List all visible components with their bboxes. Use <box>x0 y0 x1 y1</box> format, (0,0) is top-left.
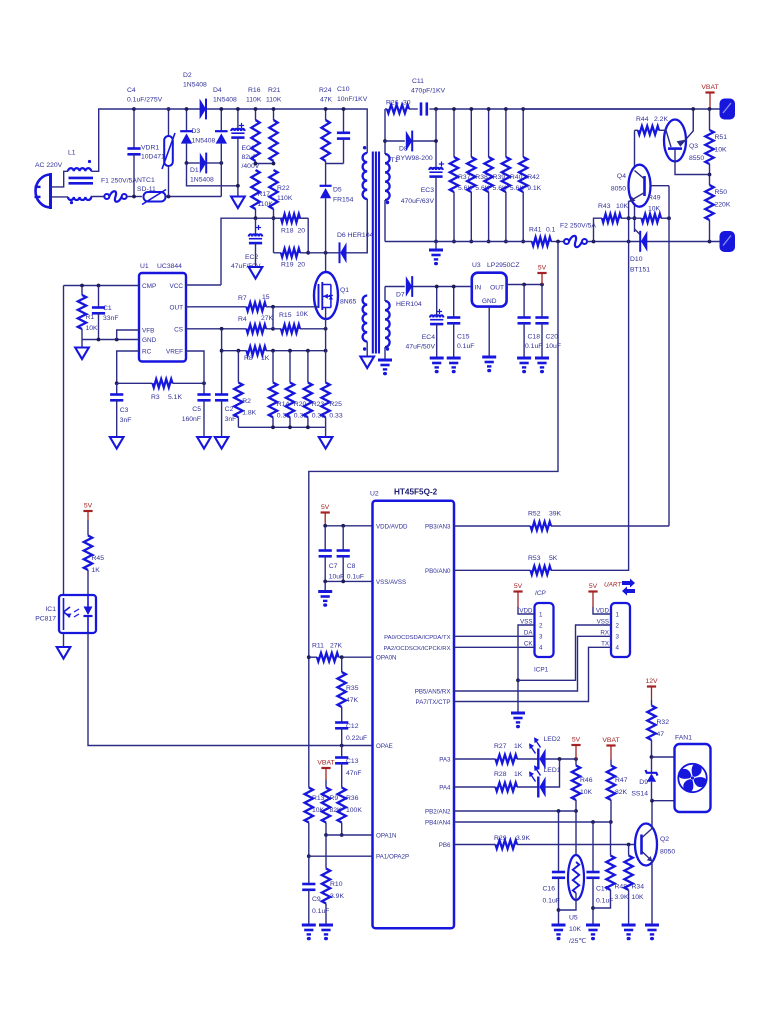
ground EC4 <box>430 357 444 360</box>
svg-text:110K: 110K <box>266 97 282 104</box>
svg-text:VDD: VDD <box>519 607 533 614</box>
wire EC3 node <box>435 109 437 170</box>
svg-text:0.1: 0.1 <box>546 227 556 234</box>
svg-text:47: 47 <box>657 731 665 738</box>
wire VCC rail <box>221 218 308 285</box>
svg-text:1N5408: 1N5408 <box>213 97 237 104</box>
svg-text:5.1K: 5.1K <box>168 394 182 401</box>
svg-text:VSS/AVSS: VSS/AVSS <box>376 579 406 586</box>
wire RC pin <box>117 351 139 383</box>
svg-text:39K: 39K <box>549 511 562 518</box>
svg-text:1K: 1K <box>514 771 523 778</box>
svg-text:3nF: 3nF <box>225 416 237 423</box>
svg-text:D3: D3 <box>192 128 201 135</box>
connector AC plug <box>36 175 51 208</box>
wire UART VSS <box>518 625 611 680</box>
wire Q2 emitter to ground <box>651 861 653 924</box>
svg-text:R44: R44 <box>636 116 649 123</box>
svg-text:R28: R28 <box>494 771 507 778</box>
svg-text:2: 2 <box>539 622 543 629</box>
resistor R25 <box>325 351 327 383</box>
wire clamp to D6 <box>308 252 339 254</box>
svg-text:470uF/63V: 470uF/63V <box>401 198 435 205</box>
svg-text:160nF: 160nF <box>182 416 201 423</box>
svg-text:VDD: VDD <box>596 607 610 614</box>
wire VCC pin <box>186 284 221 286</box>
wire D5 anode to drain node <box>325 198 327 284</box>
svg-text:VCC: VCC <box>170 283 184 290</box>
svg-text:TX: TX <box>601 641 609 648</box>
svg-text:R7: R7 <box>238 295 247 302</box>
svg-text:3: 3 <box>539 634 543 641</box>
wire L1 bottom to fuse <box>91 196 104 198</box>
svg-text:R24: R24 <box>319 87 332 94</box>
svg-text:C18: C18 <box>528 334 541 341</box>
wire Q1 source <box>325 308 327 329</box>
resistor R40 <box>505 109 507 157</box>
ground EC2 <box>249 267 263 279</box>
wire fuse to NTC <box>127 196 142 198</box>
svg-text:0.1uF: 0.1uF <box>525 343 542 350</box>
wire Q1 drain internal <box>325 283 327 286</box>
svg-text:8050: 8050 <box>660 849 675 856</box>
svg-text:R18: R18 <box>281 228 294 235</box>
svg-text:VDD/AVDD: VDD/AVDD <box>376 523 408 530</box>
svg-text:10K: 10K <box>580 789 593 796</box>
svg-text:OUT: OUT <box>170 305 184 312</box>
wire VDD line <box>325 525 372 527</box>
svg-text:0.1uF: 0.1uF <box>543 898 560 905</box>
wire ICP VSS to ground <box>518 625 535 712</box>
wire VREF pin <box>186 351 204 395</box>
svg-text:1N5408: 1N5408 <box>192 138 216 145</box>
wire opto output to OPAE <box>88 633 373 746</box>
svg-text:R22: R22 <box>277 185 290 192</box>
wire VFB to ground line <box>117 330 139 340</box>
capacitor EC1 <box>239 125 244 127</box>
svg-text:GND: GND <box>142 337 157 344</box>
wire VSS line <box>325 580 372 582</box>
svg-text:FAN1: FAN1 <box>675 735 692 742</box>
resistor R23 <box>307 351 309 383</box>
svg-text:C2: C2 <box>225 406 234 413</box>
svg-text:PA2/OCDSCK/ICPCK/RX: PA2/OCDSCK/ICPCK/RX <box>384 646 451 652</box>
svg-text:RX: RX <box>600 630 609 637</box>
ground Q2 <box>645 924 659 927</box>
svg-text:3.9K: 3.9K <box>615 894 629 901</box>
svg-text:C11: C11 <box>412 78 424 85</box>
svg-text:R51: R51 <box>715 134 728 141</box>
svg-text:EC3: EC3 <box>421 187 434 194</box>
svg-text:F2 250V/5A: F2 250V/5A <box>560 223 596 230</box>
svg-text:220K: 220K <box>715 202 731 209</box>
ground IC1 <box>63 633 65 647</box>
svg-text:VBAT: VBAT <box>701 84 718 91</box>
ground C9 <box>302 924 316 927</box>
svg-text:D4: D4 <box>213 87 222 94</box>
svg-text:5K: 5K <box>549 555 558 562</box>
svg-text:47nF: 47nF <box>346 770 362 777</box>
wire PA7 to UART TX <box>454 647 611 701</box>
svg-text:C15: C15 <box>457 334 470 341</box>
wire CS pin <box>186 328 247 330</box>
svg-text:10K: 10K <box>569 926 582 933</box>
transformer T1 primary winding <box>366 109 368 153</box>
wire ICP VDD <box>518 607 535 614</box>
wire plug to L1 bottom <box>51 196 69 198</box>
svg-text:20: 20 <box>298 262 306 269</box>
svg-text:U2: U2 <box>370 491 379 498</box>
wire D6 to primary bottom <box>347 199 368 253</box>
svg-text:110K: 110K <box>277 195 293 202</box>
svg-text:R4: R4 <box>238 316 247 323</box>
svg-text:AC 220V: AC 220V <box>35 162 63 169</box>
svg-text:PA4: PA4 <box>439 785 451 792</box>
svg-text:1.8K: 1.8K <box>242 410 256 417</box>
svg-text:CMP: CMP <box>142 283 156 290</box>
svg-text:CS: CS <box>174 326 183 333</box>
svg-text:R35: R35 <box>346 685 359 692</box>
wire PB4 line <box>454 821 611 823</box>
svg-text:R3: R3 <box>151 394 160 401</box>
svg-text:15: 15 <box>262 294 270 301</box>
terminal output negative <box>721 232 735 251</box>
svg-text:ICP: ICP <box>535 590 546 597</box>
svg-text:1: 1 <box>539 611 543 618</box>
svg-text:PB6: PB6 <box>439 842 451 849</box>
svg-text:EC2: EC2 <box>245 254 258 261</box>
svg-text:NTC1: NTC1 <box>137 177 155 184</box>
svg-text:OUT: OUT <box>490 285 504 292</box>
svg-text:PA7/TX/CTP: PA7/TX/CTP <box>416 699 451 706</box>
svg-text:5V: 5V <box>514 583 523 590</box>
ground ICP <box>511 712 525 715</box>
svg-text:PB2/AN2: PB2/AN2 <box>425 809 451 816</box>
svg-text:PA0/OCDSDA/ICPDA/TX: PA0/OCDSDA/ICPDA/TX <box>384 635 450 641</box>
ground C3 <box>110 437 124 449</box>
svg-text:UC3844: UC3844 <box>157 263 182 270</box>
wire Q2 collector <box>652 801 675 829</box>
svg-text:U5: U5 <box>569 915 578 922</box>
svg-text:SS14: SS14 <box>631 791 648 798</box>
ground C18 <box>517 357 531 360</box>
svg-text:27K: 27K <box>261 315 274 322</box>
ground C17 <box>586 924 600 927</box>
wire sense resistor bottoms <box>238 426 325 428</box>
svg-text:IN: IN <box>475 285 482 292</box>
wire R43 R49 line <box>594 218 603 241</box>
wire PB2 line <box>454 810 576 812</box>
wire current sense feedback <box>309 242 558 788</box>
wire bridge negative to EC1 ground <box>187 163 238 186</box>
resistor R14 <box>272 351 274 383</box>
svg-text:LED2: LED2 <box>544 736 561 743</box>
svg-text:Q2: Q2 <box>660 836 669 843</box>
svg-text:4: 4 <box>539 645 543 652</box>
svg-text:D2: D2 <box>183 72 192 79</box>
svg-text:VSS: VSS <box>597 618 609 625</box>
svg-text:470pF/1KV: 470pF/1KV <box>411 88 445 95</box>
transformer T1 secondary winding bottom <box>385 301 390 347</box>
svg-text:C20: C20 <box>546 334 559 341</box>
ground sense resistors <box>325 427 327 436</box>
svg-text:5V: 5V <box>589 583 598 590</box>
capacitor EC3 <box>439 163 444 165</box>
ground U3 <box>482 356 496 359</box>
svg-text:R53: R53 <box>528 555 541 562</box>
wire AC rail top <box>134 108 367 110</box>
resistor R20 <box>289 351 291 383</box>
svg-text:R25: R25 <box>329 401 342 408</box>
resistor R42 <box>522 109 524 157</box>
svg-text:9.1K: 9.1K <box>527 185 541 192</box>
wire R18 R19 right junction <box>307 218 309 253</box>
svg-text:R16: R16 <box>248 87 261 94</box>
svg-text:HT45F5Q-2: HT45F5Q-2 <box>394 488 438 497</box>
svg-text:0.1uF: 0.1uF <box>457 343 474 350</box>
capacitor EC2 <box>256 227 261 229</box>
svg-text:L1: L1 <box>68 150 76 157</box>
svg-text:C3: C3 <box>120 407 129 414</box>
svg-text:4: 4 <box>616 645 620 652</box>
svg-text:R27: R27 <box>494 743 507 750</box>
wire PA2 to ICP CK <box>454 646 535 648</box>
svg-text:OPA0N: OPA0N <box>376 655 397 662</box>
svg-text:C7: C7 <box>329 563 338 570</box>
svg-text:U1: U1 <box>140 263 149 270</box>
svg-text:10K: 10K <box>715 147 728 154</box>
wire U3 ground pin <box>488 307 490 356</box>
svg-text:3.9K: 3.9K <box>516 835 530 842</box>
wire plug to L1 top <box>51 171 69 187</box>
svg-text:R52: R52 <box>528 511 541 518</box>
svg-text:2: 2 <box>616 622 620 629</box>
svg-text:IC1: IC1 <box>45 606 56 613</box>
svg-text:R49: R49 <box>648 195 661 202</box>
ground C15 <box>447 357 461 360</box>
ground EC1 <box>231 197 245 209</box>
svg-text:R50: R50 <box>715 189 728 196</box>
ground R34 <box>622 924 636 927</box>
ground EC3 <box>435 242 437 250</box>
svg-text:R19: R19 <box>281 262 294 269</box>
transformer T1 auxiliary winding <box>363 296 368 342</box>
svg-text:UART: UART <box>604 582 622 589</box>
svg-text:3.9K: 3.9K <box>330 893 344 900</box>
wire UART VDD <box>593 607 611 614</box>
svg-text:R42: R42 <box>527 174 540 181</box>
ground T1 secondary side <box>378 359 392 362</box>
svg-text:8050: 8050 <box>611 186 626 193</box>
svg-text:33nF: 33nF <box>103 315 119 322</box>
wire LED1 up to 5V node <box>546 759 560 787</box>
svg-text:100K: 100K <box>346 807 362 814</box>
svg-text:PB5/AN5/RX: PB5/AN5/RX <box>415 689 451 696</box>
ground C16 <box>552 924 566 927</box>
svg-text:3: 3 <box>616 634 620 641</box>
transformer T1 secondary winding top <box>384 109 386 154</box>
wire R8 line <box>222 350 247 352</box>
svg-text:R43: R43 <box>598 203 611 210</box>
svg-text:PB4/AN4: PB4/AN4 <box>425 820 451 827</box>
wire Q4 emitter to sense line <box>628 202 630 242</box>
svg-text:R34: R34 <box>632 884 645 891</box>
resistor R2 <box>237 351 239 383</box>
svg-text:R10: R10 <box>330 881 343 888</box>
terminal output positive <box>721 100 735 119</box>
svg-text:0.1uF: 0.1uF <box>312 908 329 915</box>
resistor R37 <box>453 109 455 157</box>
svg-text:R41: R41 <box>529 227 542 234</box>
wire PA1/OPA2P line <box>309 856 373 884</box>
wire gate node to CS divider <box>272 307 274 329</box>
wire NTC to bridge <box>166 196 222 198</box>
wire R44 to gate line <box>634 130 636 232</box>
wire feedback left vertical <box>63 286 65 596</box>
ground C2 <box>215 437 229 449</box>
wire OPA1N line <box>326 834 373 836</box>
svg-text:10K: 10K <box>632 894 645 901</box>
svg-text:C8: C8 <box>347 563 356 570</box>
svg-text:R45: R45 <box>92 555 105 562</box>
wire Q1 source to R25 <box>325 329 327 351</box>
svg-text:1: 1 <box>616 611 620 618</box>
svg-text:1K: 1K <box>514 743 523 750</box>
svg-text:D6 HER104: D6 HER104 <box>337 232 373 239</box>
svg-text:5V: 5V <box>538 265 547 272</box>
svg-text:3nF: 3nF <box>120 417 132 424</box>
svg-text:OPA1N: OPA1N <box>376 833 397 840</box>
svg-text:10uF: 10uF <box>329 574 345 581</box>
wire secondary output rail <box>436 109 693 131</box>
svg-text:EC4: EC4 <box>422 334 435 341</box>
wire PB5 to UART RX <box>454 636 611 691</box>
svg-text:PB3/AN3: PB3/AN3 <box>425 523 451 530</box>
svg-text:10K: 10K <box>616 203 629 210</box>
ground R10 <box>319 924 333 927</box>
svg-text:C16: C16 <box>543 886 556 893</box>
svg-text:1K: 1K <box>92 567 101 574</box>
svg-text:C10: C10 <box>337 86 350 93</box>
svg-text:VSS: VSS <box>520 618 532 625</box>
svg-text:PA3: PA3 <box>439 757 451 764</box>
resistor R38 <box>470 109 472 157</box>
svg-text:0.1uF/275V: 0.1uF/275V <box>127 97 163 104</box>
svg-text:0.1uF: 0.1uF <box>347 574 364 581</box>
wire L1 top to rail corner <box>91 109 134 171</box>
svg-text:BYW98-200: BYW98-200 <box>396 155 433 162</box>
wire OUT gate drive <box>186 306 247 308</box>
svg-text:0.33: 0.33 <box>329 413 342 420</box>
svg-text:10K: 10K <box>296 311 309 318</box>
wire R24 C10 junction <box>326 163 344 165</box>
svg-text:47uF/50V: 47uF/50V <box>406 344 436 351</box>
svg-text:10K: 10K <box>86 325 99 332</box>
ground U1 R1 <box>81 340 83 348</box>
svg-text:10nF/1KV: 10nF/1KV <box>337 96 368 103</box>
svg-text:1N5408: 1N5408 <box>190 177 214 184</box>
svg-text:VFB: VFB <box>142 328 154 335</box>
svg-text:LED1: LED1 <box>544 767 561 774</box>
svg-text:F1 250V/5A: F1 250V/5A <box>101 178 137 185</box>
svg-text:PC817: PC817 <box>35 616 56 623</box>
diode D4 <box>220 109 222 131</box>
svg-text:DA: DA <box>524 630 533 637</box>
resistor R39 <box>488 109 490 157</box>
svg-text:GND: GND <box>482 298 497 305</box>
svg-text:VDR1: VDR1 <box>141 145 159 152</box>
svg-text:C9: C9 <box>312 896 321 903</box>
wire 5V output <box>507 284 542 286</box>
svg-text:Q4: Q4 <box>617 173 626 180</box>
svg-text:2.2K: 2.2K <box>654 116 668 123</box>
svg-text:OPAE: OPAE <box>376 743 393 750</box>
svg-text:D7: D7 <box>396 292 405 299</box>
svg-text:27K: 27K <box>330 643 343 650</box>
svg-text:D1: D1 <box>190 167 199 174</box>
svg-text:8550: 8550 <box>689 155 704 162</box>
svg-text:PB0/AN0: PB0/AN0 <box>425 568 451 575</box>
svg-text:R46: R46 <box>580 777 593 784</box>
svg-text:R2: R2 <box>242 398 251 405</box>
ground C5 <box>197 437 211 449</box>
ground C20 <box>535 357 549 360</box>
svg-text:RC: RC <box>142 349 152 356</box>
ground C7 C8 <box>324 581 326 590</box>
svg-text:VBAT: VBAT <box>602 737 619 744</box>
svg-text:CK: CK <box>524 641 533 648</box>
svg-text:110K: 110K <box>246 97 262 104</box>
capacitor EC4 <box>437 311 442 313</box>
ground T1 primary side <box>360 357 374 369</box>
svg-text:C5: C5 <box>192 406 201 413</box>
svg-text:R15: R15 <box>279 312 292 319</box>
svg-text:5V: 5V <box>572 737 581 744</box>
svg-text:8N65: 8N65 <box>340 299 356 306</box>
wire PA0 to ICP DA <box>454 635 535 637</box>
svg-text:/25℃: /25℃ <box>569 938 586 945</box>
wire LED2 to 5V node <box>546 758 576 760</box>
svg-text:D5: D5 <box>333 187 342 194</box>
svg-text:FR154: FR154 <box>333 197 354 204</box>
svg-text:20: 20 <box>298 228 306 235</box>
wire Q4 base feedback <box>668 186 670 526</box>
svg-text:LP2950CZ: LP2950CZ <box>487 262 520 269</box>
svg-text:HER104: HER104 <box>396 301 422 308</box>
wire R16 R21 junction <box>256 163 274 165</box>
wire secondary return rail <box>385 241 532 243</box>
wire fan positive <box>652 756 675 758</box>
svg-text:BT151: BT151 <box>630 267 650 274</box>
svg-text:C4: C4 <box>127 87 136 94</box>
wire CMP line <box>64 285 140 287</box>
svg-text:R21: R21 <box>268 87 281 94</box>
svg-text:VBAT: VBAT <box>317 760 334 767</box>
svg-text:U3: U3 <box>472 262 481 269</box>
svg-text:R32: R32 <box>657 719 670 726</box>
svg-text:R47: R47 <box>615 777 628 784</box>
svg-text:Q3: Q3 <box>689 143 698 150</box>
svg-text:5V: 5V <box>84 503 93 510</box>
svg-text:5V: 5V <box>321 504 330 511</box>
wire return rail to terminal <box>587 241 721 243</box>
svg-text:D10: D10 <box>630 256 643 263</box>
svg-text:Q1: Q1 <box>340 287 349 294</box>
wire GND line <box>82 339 139 341</box>
svg-text:47K: 47K <box>320 97 333 104</box>
wire output rail right <box>523 108 720 110</box>
svg-text:0.22uF: 0.22uF <box>346 735 367 742</box>
